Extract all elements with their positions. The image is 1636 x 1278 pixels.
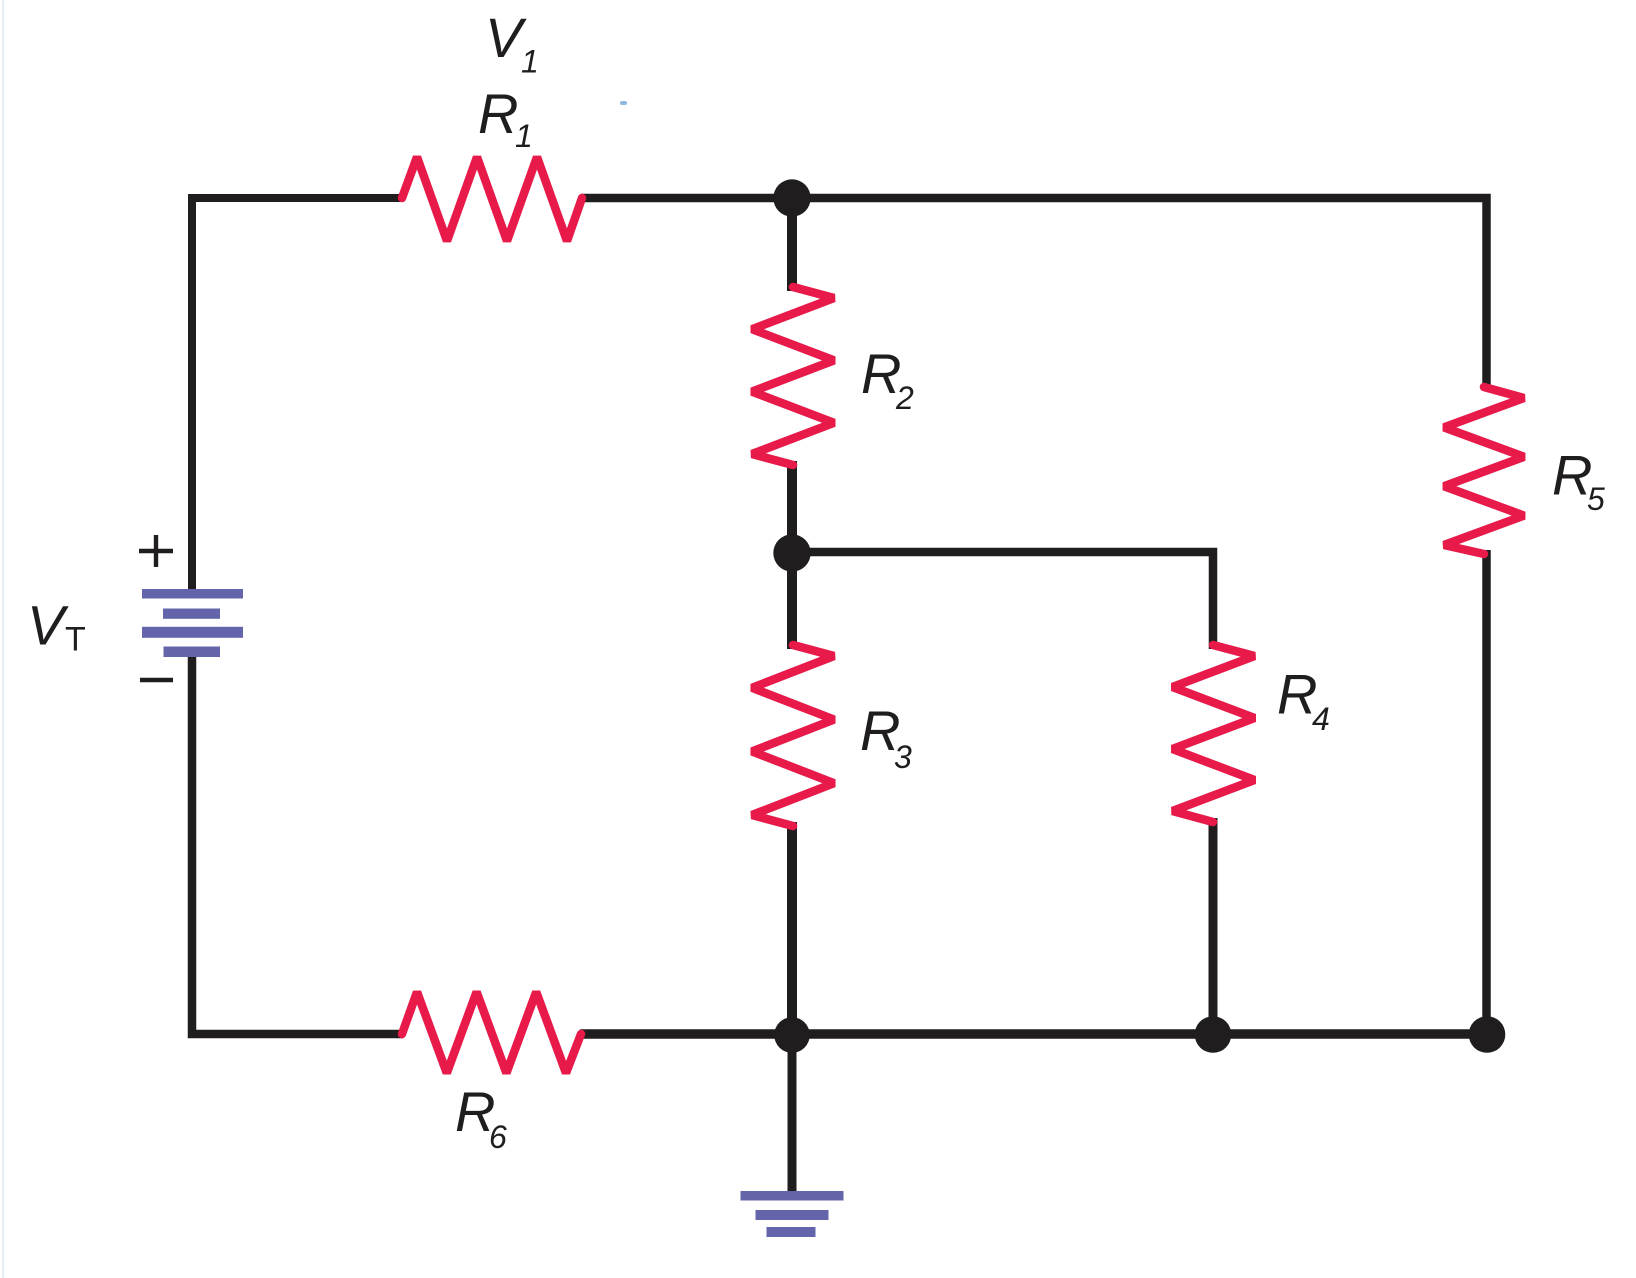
- svg-text:5: 5: [1587, 481, 1605, 517]
- resistor R1: [402, 157, 582, 241]
- wire left rail lower and bottom rail to R6: [192, 654, 403, 1034]
- wire left rail upper and top rail to R1: [192, 198, 403, 592]
- svg-text:V: V: [27, 594, 69, 657]
- battery minus sign: [140, 678, 173, 682]
- wire R2 to node B: [787, 461, 797, 553]
- wire node B to R3 top: [787, 552, 797, 649]
- resistor R5: [1444, 387, 1524, 554]
- node E junction dot (bottom right): [1469, 1016, 1506, 1053]
- speck artifact: [620, 101, 627, 105]
- ground: [741, 1191, 844, 1237]
- svg-text:6: 6: [489, 1119, 507, 1155]
- svg-text:1: 1: [515, 118, 533, 154]
- node B junction dot: [773, 534, 810, 571]
- node A junction dot: [773, 179, 810, 216]
- label R4: [1277, 663, 1330, 738]
- wire node B to R4 top: [792, 552, 1213, 649]
- wire top rail from R1 to top-right corner down to R5: [581, 198, 1487, 388]
- node C junction dot (ground node): [774, 1017, 810, 1053]
- svg-text:T: T: [65, 621, 86, 659]
- battery VT plates: [142, 589, 243, 657]
- resistor R3: [752, 645, 834, 826]
- svg-text:3: 3: [894, 739, 912, 775]
- wire R5 bottom to bottom-right corner: [1482, 550, 1491, 1034]
- node D junction dot (R4 bottom): [1195, 1016, 1232, 1053]
- wire bottom rail from R6 to bottom-right corner: [580, 1029, 1487, 1039]
- label R6: [455, 1080, 507, 1155]
- label R5: [1552, 444, 1605, 518]
- label R2: [861, 342, 914, 416]
- label VT: [27, 594, 86, 659]
- resistor R4: [1173, 645, 1255, 822]
- page edge line: [2, 0, 4, 1278]
- svg-text:R: R: [478, 82, 518, 145]
- wire R4 bottom to bottom rail: [1209, 818, 1218, 1034]
- svg-text:2: 2: [895, 380, 914, 416]
- svg-text:4: 4: [1312, 701, 1330, 737]
- battery plus sign: [139, 535, 173, 567]
- label R1: [478, 82, 533, 154]
- label V1: [485, 6, 539, 80]
- resistor R6: [402, 992, 581, 1073]
- label R3: [860, 699, 912, 775]
- wire R3 bottom to bottom rail: [787, 822, 797, 1034]
- svg-text:1: 1: [521, 44, 539, 80]
- resistor R2: [752, 287, 834, 465]
- wire ground stub: [788, 1034, 797, 1193]
- wire stub node A to R2: [787, 198, 797, 291]
